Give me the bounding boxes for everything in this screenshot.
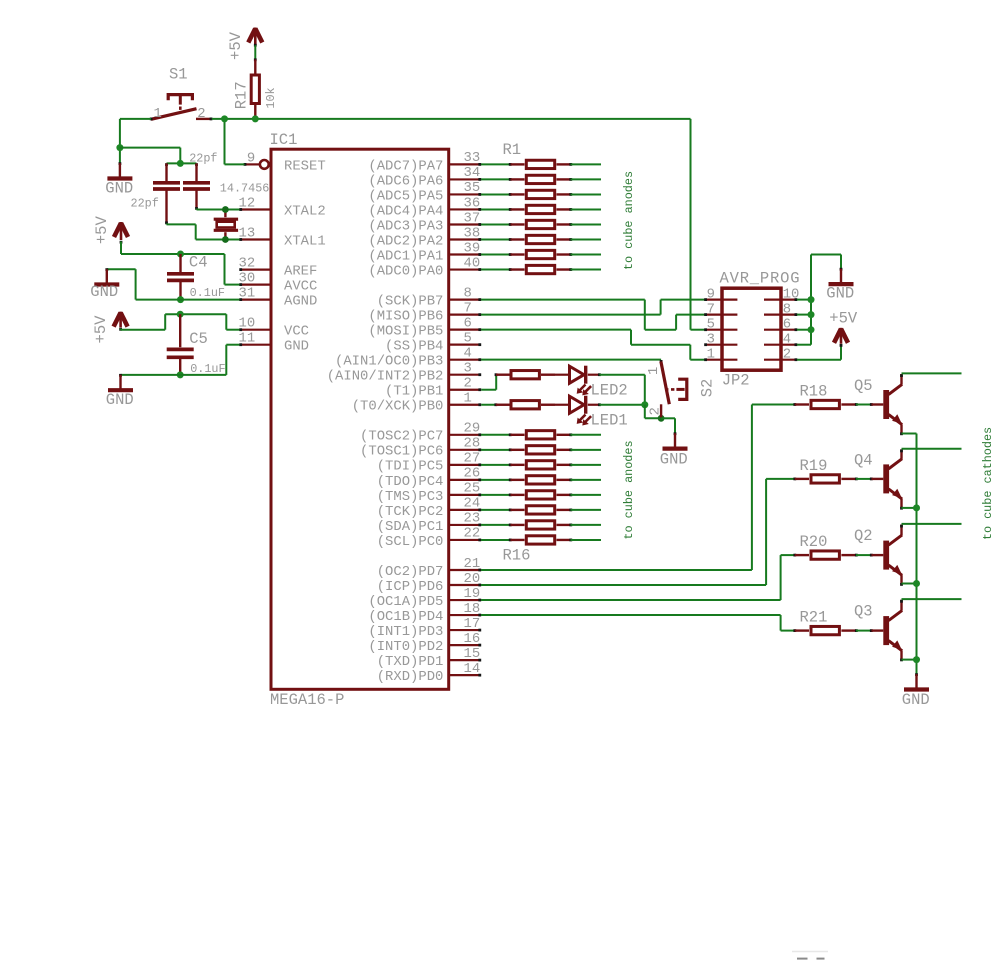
- svg-text:(SCL)PC0: (SCL)PC0: [377, 534, 444, 550]
- ground GND (emitter bus): [915, 673, 918, 676]
- transistor Q5: [883, 390, 889, 419]
- svg-text:36: 36: [464, 195, 481, 211]
- resistor R19: [793, 478, 796, 481]
- svg-text:GND: GND: [284, 339, 309, 355]
- wire S2 pin2 to gnd: [661, 417, 675, 419]
- svg-text:to cube anodes: to cube anodes: [622, 440, 636, 539]
- svg-text:(INT1)PD3: (INT1)PD3: [368, 624, 443, 640]
- pin 31 AGND: [240, 299, 273, 301]
- wire LED1 cathode to junction: [599, 404, 644, 406]
- svg-text:AGND: AGND: [284, 294, 317, 310]
- svg-text:16: 16: [464, 631, 481, 647]
- svg-text:10: 10: [783, 287, 800, 303]
- wire RESET net main rail: [120, 118, 151, 120]
- pin 15 (TXD)PD1: [448, 659, 481, 661]
- capacitor C5 0.1uF: [179, 314, 181, 347]
- resistor R21: [793, 629, 796, 632]
- svg-text:(TMS)PC3: (TMS)PC3: [377, 489, 444, 505]
- ground GND (C4/AGND): [105, 268, 108, 271]
- svg-text:14.7456: 14.7456: [220, 182, 270, 196]
- resistor R16 element 3: [481, 464, 511, 466]
- svg-text:27: 27: [464, 451, 481, 467]
- resistor R16 element 8: [481, 539, 511, 541]
- pin 35 (ADC5)PA5: [448, 193, 481, 195]
- bottom edge artifact marks: [797, 958, 808, 960]
- wire Q4 emitter to bus: [902, 507, 917, 509]
- pin 23 (SDA)PC1: [448, 524, 481, 526]
- wire GND branch from S1: [119, 119, 121, 148]
- svg-text:to cube anodes: to cube anodes: [622, 171, 636, 270]
- junction C5 top: [177, 311, 184, 318]
- svg-text:23: 23: [464, 511, 481, 527]
- wire JP2 pin2 to +5V: [797, 359, 841, 361]
- crystal Q1 14.7456: [224, 210, 226, 218]
- svg-text:(ADC6)PA6: (ADC6)PA6: [368, 173, 443, 189]
- junction C4 top: [177, 251, 184, 258]
- svg-text:GND: GND: [90, 283, 118, 301]
- svg-text:LED1: LED1: [591, 411, 628, 429]
- svg-text:Q3: Q3: [854, 602, 873, 620]
- pin 14 (RXD)PD0: [448, 674, 481, 676]
- svg-text:AREF: AREF: [284, 264, 317, 280]
- wire Q3 base feed from IC pin: [481, 614, 781, 616]
- svg-text:(T1)PB1: (T1)PB1: [385, 384, 443, 400]
- capacitor C2 22pf left: [165, 163, 168, 166]
- pin 6 (MOSI)PB5: [448, 329, 481, 331]
- junction JP2 pin6: [808, 326, 815, 333]
- pin 26 (TDO)PC4: [448, 479, 481, 481]
- pin 18 (OC1B)PD4: [448, 614, 481, 616]
- pin 40 (ADC0)PA0: [448, 268, 481, 270]
- resistor R22 (LED2): [495, 373, 498, 376]
- ground GND (JP2): [840, 255, 842, 269]
- svg-text:(AIN0/INT2)PB2: (AIN0/INT2)PB2: [327, 369, 444, 385]
- pin 9 RESET: [244, 163, 260, 165]
- svg-text:1: 1: [154, 106, 162, 122]
- resistor R1 element 7: [481, 254, 511, 256]
- switch S1: [151, 109, 197, 120]
- pin 34 (ADC6)PA6: [448, 178, 481, 180]
- svg-text:C5: C5: [189, 330, 208, 348]
- wire Q5 base feed from IC pin: [481, 569, 752, 571]
- svg-text:4: 4: [783, 332, 791, 348]
- svg-text:26: 26: [464, 466, 481, 482]
- pin 19 (OC1A)PD5: [448, 599, 481, 601]
- wire LED junction to S2 pin2: [644, 405, 646, 419]
- pin 10 VCC: [240, 329, 273, 331]
- LED LED2: [570, 366, 585, 383]
- svg-text:24: 24: [464, 496, 481, 512]
- svg-text:19: 19: [464, 586, 481, 602]
- wire +5V to AVCC: [120, 242, 122, 255]
- JP2 pin 9: [705, 299, 738, 301]
- resistor R1 element 2: [481, 178, 511, 180]
- svg-text:GND: GND: [826, 285, 854, 303]
- svg-text:3: 3: [464, 361, 472, 377]
- svg-text:(AIN1/OC0)PB3: (AIN1/OC0)PB3: [335, 354, 443, 370]
- switch S2: [660, 360, 663, 363]
- svg-text:(INT0)PD2: (INT0)PD2: [368, 639, 443, 655]
- resistor R1 element 5: [481, 223, 511, 225]
- resistor R23 (LED1): [494, 403, 497, 406]
- svg-text:(OC2)PD7: (OC2)PD7: [377, 564, 444, 580]
- pin 27 (TDI)PC5: [448, 464, 481, 466]
- svg-text:GND: GND: [660, 451, 688, 469]
- transistor Q4: [883, 464, 889, 493]
- svg-text:+5V: +5V: [227, 31, 245, 60]
- wire XTAL2 net: [196, 208, 198, 211]
- pin 28 (TOSC1)PC6: [448, 449, 481, 451]
- svg-text:1: 1: [707, 347, 715, 363]
- svg-text:+5V: +5V: [92, 315, 110, 344]
- JP2 pin 8: [764, 314, 797, 316]
- wire cathode line Q2: [902, 523, 962, 525]
- wire MOSI net PB5 to JP2 pin1: [481, 329, 631, 331]
- svg-text:R17: R17: [233, 81, 251, 109]
- svg-text:(ADC5)PA5: (ADC5)PA5: [368, 188, 443, 204]
- wire Q3 emitter to bus: [902, 659, 917, 661]
- svg-text:(TCK)PC2: (TCK)PC2: [377, 504, 444, 520]
- resistor R16 element 2: [481, 449, 511, 451]
- wire LED2 cathode: [599, 374, 644, 376]
- junction C4 bottom: [177, 296, 184, 303]
- junction LED cathodes: [641, 401, 648, 408]
- junction Q2 emitter: [913, 580, 920, 587]
- wire +5V to VCC: [120, 329, 122, 330]
- svg-text:9: 9: [707, 287, 715, 303]
- svg-text:2: 2: [464, 376, 472, 392]
- wire Q2 base feed from IC pin: [481, 599, 781, 601]
- junction Q3 emitter: [913, 656, 920, 663]
- resistor R16 element 4: [481, 479, 511, 481]
- resistor R17: [254, 105, 256, 119]
- svg-text:VCC: VCC: [284, 324, 309, 340]
- svg-text:(T0/XCK)PB0: (T0/XCK)PB0: [352, 399, 444, 415]
- pin 7 (MISO)PB6: [448, 314, 481, 316]
- junction crystal top / XTAL2: [222, 206, 229, 213]
- wire R19 to Q4 base: [856, 478, 872, 480]
- svg-text:31: 31: [239, 286, 256, 302]
- svg-text:R16: R16: [503, 546, 531, 564]
- resistor R1 element 6: [481, 239, 511, 241]
- wire RESET net to IC pin 9: [224, 119, 226, 164]
- wire C5 gnd net: [121, 374, 227, 376]
- svg-text:20: 20: [464, 571, 481, 587]
- ground GND (S2/LEDs): [674, 432, 677, 435]
- junction caps top: [177, 160, 184, 167]
- junction crystal bottom / XTAL1: [222, 236, 229, 243]
- pin 24 (TCK)PC2: [448, 509, 481, 511]
- svg-text:(TOSC2)PC7: (TOSC2)PC7: [360, 429, 443, 445]
- ground GND (C5): [119, 374, 122, 377]
- pin 17 (INT1)PD3: [448, 629, 481, 631]
- pin 22 (SCL)PC0: [448, 539, 481, 541]
- svg-text:Q2: Q2: [854, 527, 873, 545]
- wire cathode line Q3: [902, 598, 962, 600]
- svg-text:to cube cathodes: to cube cathodes: [981, 427, 995, 540]
- pin 29 (TOSC2)PC7: [448, 434, 481, 436]
- resistor R16 element 5: [481, 494, 511, 496]
- wire RESET net to JP2 pin5: [690, 119, 692, 330]
- resistor R1 element 1: [481, 163, 511, 165]
- svg-text:38: 38: [464, 225, 481, 241]
- svg-text:S2: S2: [699, 379, 717, 398]
- svg-text:(TDO)PC4: (TDO)PC4: [377, 474, 444, 490]
- svg-text:Q5: Q5: [854, 377, 873, 395]
- svg-text:29: 29: [464, 421, 481, 437]
- svg-text:(ADC1)PA1: (ADC1)PA1: [368, 248, 443, 264]
- svg-text:LED2: LED2: [591, 381, 628, 399]
- svg-text:12: 12: [239, 196, 256, 212]
- svg-text:32: 32: [239, 256, 256, 272]
- svg-text:(TOSC1)PC6: (TOSC1)PC6: [360, 444, 443, 460]
- wire cathode line Q5: [902, 372, 962, 374]
- junction S1 gnd node: [116, 144, 123, 151]
- svg-text:8: 8: [464, 285, 472, 301]
- svg-text:(ADC7)PA7: (ADC7)PA7: [368, 158, 443, 174]
- IC IC1 MEGA16-P body: [271, 149, 449, 689]
- svg-text:RESET: RESET: [284, 158, 326, 174]
- svg-text:+5V: +5V: [829, 310, 858, 328]
- svg-text:R19: R19: [800, 457, 828, 475]
- wire emitter bus: [902, 433, 917, 435]
- svg-text:(OC1A)PD5: (OC1A)PD5: [368, 594, 443, 610]
- svg-text:(MISO)PB6: (MISO)PB6: [368, 309, 443, 325]
- svg-text:13: 13: [239, 226, 256, 242]
- svg-text:1: 1: [646, 367, 662, 375]
- +5V supply symbol (JP2): [840, 328, 843, 344]
- svg-text:30: 30: [239, 271, 256, 287]
- svg-text:Q4: Q4: [854, 451, 873, 469]
- svg-text:22: 22: [464, 526, 481, 542]
- junction S2 pin2: [658, 415, 665, 422]
- svg-text:R1: R1: [503, 141, 522, 159]
- JP2 pin 4: [764, 344, 797, 346]
- svg-text:22pf: 22pf: [131, 196, 159, 210]
- JP2 pin 5: [705, 329, 738, 331]
- JP2 pin 1: [705, 359, 738, 361]
- svg-text:MEGA16-P: MEGA16-P: [270, 691, 344, 709]
- pin 33 (ADC7)PA7: [448, 163, 481, 165]
- svg-text:GND: GND: [105, 180, 133, 198]
- svg-text:8: 8: [783, 302, 791, 318]
- pin 8 (SCK)PB7: [448, 299, 481, 301]
- svg-text:5: 5: [464, 330, 472, 346]
- pin 2 (T1)PB1: [448, 389, 481, 391]
- wire MISO net PB6 to JP2 pin9: [481, 314, 661, 316]
- pin 16 (INT0)PD2: [448, 644, 481, 646]
- JP2 pin 3: [705, 344, 738, 346]
- wire R20 to Q2 base: [856, 554, 872, 556]
- svg-text:10: 10: [239, 316, 256, 332]
- wire R18 to Q5 base: [856, 404, 872, 406]
- junction JP2 pin10: [808, 296, 815, 303]
- pin 3 (AIN0/INT2)PB2: [448, 374, 481, 376]
- svg-text:7: 7: [707, 302, 715, 318]
- svg-text:22pf: 22pf: [189, 151, 217, 165]
- svg-text:14: 14: [464, 661, 481, 677]
- svg-text:4: 4: [464, 345, 472, 361]
- svg-text:GND: GND: [106, 391, 134, 409]
- wire PB1 to LED2 resistor: [481, 389, 496, 391]
- pin 13 XTAL1: [240, 238, 273, 240]
- svg-text:6: 6: [464, 315, 472, 331]
- resistor R1 element 8: [481, 269, 511, 271]
- pin 21 (OC2)PD7: [448, 569, 481, 571]
- svg-text:XTAL1: XTAL1: [284, 233, 326, 249]
- svg-text:(TDI)PC5: (TDI)PC5: [377, 459, 444, 475]
- +5V supply symbol above R17: [254, 28, 257, 46]
- svg-text:21: 21: [464, 556, 481, 572]
- svg-text:XTAL2: XTAL2: [284, 203, 326, 219]
- junction JP2 pin8: [808, 311, 815, 318]
- svg-text:(SS)PB4: (SS)PB4: [385, 339, 443, 355]
- pin 20 (ICP)PD6: [448, 584, 481, 586]
- svg-text:34: 34: [464, 165, 481, 181]
- svg-text:28: 28: [464, 436, 481, 452]
- JP2 pin 2: [764, 359, 797, 361]
- wire +5V to R17: [254, 45, 256, 59]
- JP2 pin 10: [764, 299, 797, 301]
- svg-text:(RXD)PD0: (RXD)PD0: [377, 669, 444, 685]
- svg-text:11: 11: [239, 331, 256, 347]
- wire gnd node to caps: [120, 147, 180, 149]
- svg-text:JP2: JP2: [722, 372, 750, 390]
- svg-text:6: 6: [783, 317, 791, 333]
- svg-text:35: 35: [464, 180, 481, 196]
- svg-text:5: 5: [707, 317, 715, 333]
- wire PB3 net to S2: [481, 359, 661, 361]
- ground GND (S1 node): [119, 162, 122, 165]
- svg-text:+5V: +5V: [93, 216, 111, 245]
- capacitor C3 22pf right: [195, 163, 198, 166]
- svg-text:(OC1B)PD4: (OC1B)PD4: [368, 609, 443, 625]
- svg-text:(ADC2)PA2: (ADC2)PA2: [368, 233, 443, 249]
- svg-text:3: 3: [707, 332, 715, 348]
- wire PB0 to LED1 resistor: [481, 404, 496, 406]
- junction Q4 emitter: [913, 504, 920, 511]
- pin 1 (T0/XCK)PB0: [448, 404, 481, 406]
- resistor R1 element 4: [481, 208, 511, 210]
- svg-text:25: 25: [464, 481, 481, 497]
- pin 36 (ADC4)PA4: [448, 208, 481, 210]
- svg-text:(SCK)PB7: (SCK)PB7: [377, 294, 444, 310]
- svg-text:18: 18: [464, 601, 481, 617]
- pin 12 XTAL2: [240, 208, 273, 210]
- svg-text:IC1: IC1: [270, 131, 298, 149]
- +5V supply symbol (C4): [120, 222, 123, 240]
- svg-text:R20: R20: [800, 533, 828, 551]
- pin 39 (ADC1)PA1: [448, 253, 481, 255]
- svg-text:7: 7: [464, 300, 472, 316]
- pin 37 (ADC3)PA3: [448, 223, 481, 225]
- +5V supply symbol (C5): [119, 312, 122, 328]
- svg-text:37: 37: [464, 210, 481, 226]
- pin 32 AREF: [240, 269, 273, 271]
- svg-text:GND: GND: [902, 691, 930, 709]
- svg-text:R21: R21: [800, 609, 828, 627]
- svg-text:S1: S1: [169, 66, 188, 84]
- pin 25 (TMS)PC3: [448, 494, 481, 496]
- JP2 pin 7: [705, 314, 738, 316]
- svg-text:(MOSI)PB5: (MOSI)PB5: [368, 324, 443, 340]
- svg-text:(ADC4)PA4: (ADC4)PA4: [368, 203, 443, 219]
- svg-text:10k: 10k: [264, 87, 278, 108]
- svg-text:AVR_PROG: AVR_PROG: [720, 270, 801, 288]
- svg-text:15: 15: [464, 646, 481, 662]
- svg-text:33: 33: [464, 150, 481, 166]
- wire JP2 gnd bus (pins 10,8,6,4): [797, 299, 811, 301]
- svg-text:2: 2: [647, 407, 663, 415]
- pin 38 (ADC2)PA2: [448, 238, 481, 240]
- svg-text:(ICP)PD6: (ICP)PD6: [377, 579, 444, 595]
- svg-text:1: 1: [464, 391, 472, 407]
- pin 30 AVCC: [240, 284, 273, 286]
- pin 4 (AIN1/OC0)PB3: [448, 359, 481, 361]
- svg-text:2: 2: [197, 106, 205, 122]
- resistor R16 element 1: [481, 434, 511, 436]
- junction main rail / R17: [252, 115, 259, 122]
- wire AGND net: [136, 299, 240, 301]
- svg-text:39: 39: [464, 240, 481, 256]
- wire Q2 emitter to bus: [902, 583, 917, 585]
- pin 11 GND: [240, 344, 273, 346]
- wire R21 to Q3 base: [856, 630, 872, 632]
- junction main rail / reset drop: [221, 115, 228, 122]
- JP2 pin 6: [764, 329, 797, 331]
- svg-text:R18: R18: [800, 382, 828, 400]
- resistor R18: [793, 403, 796, 406]
- resistor R16 element 7: [481, 524, 511, 526]
- pin 5 (SS)PB4: [448, 344, 481, 346]
- resistor R16 element 6: [481, 509, 511, 511]
- wire cathode line Q4: [902, 448, 962, 450]
- svg-text:(TXD)PD1: (TXD)PD1: [377, 654, 444, 670]
- svg-text:17: 17: [464, 616, 481, 632]
- wire SCK net PB7 to JP2 pin7: [481, 299, 645, 301]
- svg-text:(ADC0)PA0: (ADC0)PA0: [368, 263, 443, 279]
- svg-text:40: 40: [464, 255, 481, 271]
- LED LED1: [570, 396, 585, 413]
- svg-text:(SDA)PC1: (SDA)PC1: [377, 519, 444, 535]
- resistor R1 element 3: [481, 193, 511, 195]
- capacitor C4 0.1uF: [179, 254, 181, 272]
- transistor Q2: [883, 541, 889, 570]
- connector JP2 AVR_PROG body: [722, 288, 781, 370]
- svg-text:0.1uF: 0.1uF: [190, 286, 225, 300]
- transistor Q3: [883, 616, 889, 645]
- svg-text:(ADC3)PA3: (ADC3)PA3: [368, 218, 443, 234]
- wire Q4 base feed from IC pin: [481, 584, 766, 586]
- resistor R20: [793, 554, 796, 557]
- svg-text:2: 2: [783, 347, 791, 363]
- svg-text:9: 9: [247, 150, 255, 166]
- svg-text:C4: C4: [189, 254, 208, 272]
- wire XTAL1 net: [166, 223, 168, 226]
- junction C5 bottom: [177, 371, 184, 378]
- svg-text:AVCC: AVCC: [284, 279, 317, 295]
